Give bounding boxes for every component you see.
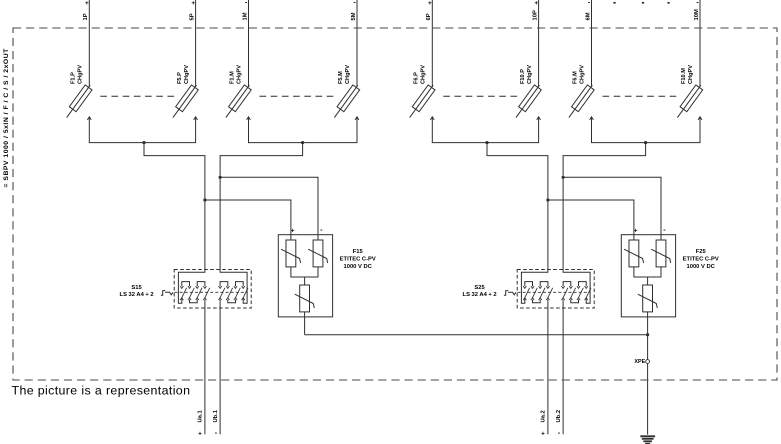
svg-text:F5.M: F5.M [338,71,344,84]
svg-text:F5.P: F5.P [177,72,183,84]
svg-text:F10.P: F10.P [520,69,526,84]
svg-text:ETITEC C-PV: ETITEC C-PV [340,257,376,263]
svg-text:-: - [245,0,248,7]
svg-text:The picture is a representatio: The picture is a representation [12,383,191,397]
svg-text:5M: 5M [351,12,357,20]
svg-text:CHgPV: CHgPV [78,65,84,84]
svg-text:10P: 10P [532,10,538,20]
svg-text:F6.P: F6.P [414,72,420,84]
svg-text:1000 V DC: 1000 V DC [344,264,373,270]
svg-text:10M: 10M [694,9,700,20]
svg-text:5P: 5P [189,13,195,20]
svg-text:-: - [320,227,323,234]
svg-text:-: - [215,428,218,437]
svg-text:+: + [85,0,89,7]
svg-text:6P: 6P [426,13,432,20]
svg-text:F1.P: F1.P [71,72,77,84]
svg-text:+: + [198,430,202,437]
svg-text:CHgPV: CHgPV [345,65,351,84]
svg-text:+: + [291,228,295,235]
svg-text:6M: 6M [585,12,591,20]
svg-text:Ub.1: Ub.1 [213,409,219,422]
svg-text:F1.M: F1.M [230,71,236,84]
svg-text:F6.M: F6.M [573,71,579,84]
svg-text:CHgPV: CHgPV [237,65,243,84]
svg-text:-: - [353,0,356,7]
svg-text:F10.M: F10.M [681,68,687,84]
svg-text:XPE: XPE [634,359,645,365]
svg-text:CHgPV: CHgPV [184,65,190,84]
svg-text:1P: 1P [83,13,89,20]
svg-text:S15: S15 [131,285,142,291]
svg-text:+: + [191,0,195,7]
svg-text:ETITEC C-PV: ETITEC C-PV [683,257,719,263]
svg-text:F15: F15 [353,249,364,255]
svg-text:1000 V DC: 1000 V DC [687,264,716,270]
svg-text:Ua.2: Ua.2 [541,410,547,422]
svg-text:LS 32 A4 + 2: LS 32 A4 + 2 [463,292,497,298]
svg-text:F25: F25 [696,249,707,255]
svg-text:1M: 1M [242,12,248,20]
svg-text:= SBPV 1000 / 5xIN / F / C / S: = SBPV 1000 / 5xIN / F / C / S / 2xOUT [3,48,10,188]
svg-text:Ub.2: Ub.2 [556,410,562,423]
svg-text:LS 32 A4 + 2: LS 32 A4 + 2 [120,292,154,298]
svg-text:S25: S25 [474,285,485,291]
svg-text:Ua.1: Ua.1 [198,409,204,422]
